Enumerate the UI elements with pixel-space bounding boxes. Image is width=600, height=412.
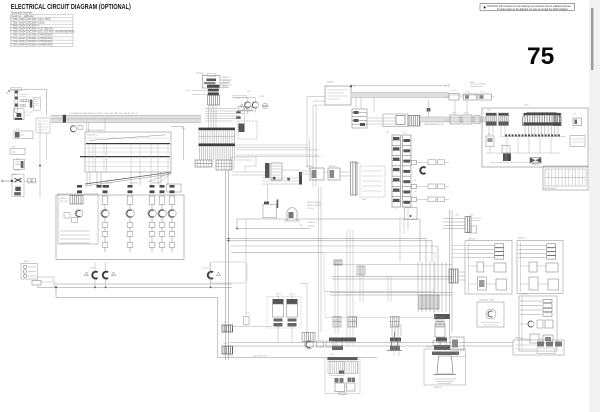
- bundle comp: [435, 324, 445, 337]
- svg-text:CN-C: CN-C: [487, 110, 492, 112]
- lamp junction dots: [94, 286, 212, 288]
- sub box SB3: [339, 392, 346, 395]
- long bus wire A: [54, 283, 232, 285]
- bus band K2: [420, 117, 487, 122]
- wires RX: [300, 171, 351, 176]
- relay C mark: [420, 167, 425, 174]
- box HH bottom right: [513, 340, 564, 355]
- svg-text:CN-7: CN-7: [455, 215, 459, 217]
- svg-text:75: 75: [527, 43, 554, 70]
- sub box SB1: [335, 383, 345, 392]
- connector bar dark: [328, 357, 358, 360]
- svg-text:D-4: D-4: [12, 147, 15, 149]
- bus junction tick: [63, 115, 66, 123]
- resistor RB: [32, 281, 41, 286]
- dark bar mid2: [332, 346, 343, 351]
- horizontal bus H292: [330, 293, 452, 296]
- svg-text:ZX170W–3 (HANDLING): ZX170W–3 (HANDLING): [27, 34, 53, 37]
- svg-text:C-3: C-3: [386, 132, 389, 134]
- comb connector top: [523, 113, 561, 126]
- relay sub-box dark cluster: [70, 196, 83, 205]
- wire bundle HB1 down: [200, 146, 235, 160]
- horizontal bus H276: [332, 277, 452, 280]
- fuse box FB1 internal verticals: [89, 144, 168, 172]
- long wire W247: [231, 245, 438, 247]
- svg-text:RELAY-5: RELAY-5: [306, 165, 314, 168]
- svg-text:D-6: D-6: [236, 118, 239, 120]
- svg-text:R-17: R-17: [236, 98, 240, 100]
- wire L1 to bus: [38, 277, 55, 287]
- work lamp WL1: [305, 340, 314, 349]
- svg-text:0084122: 0084122: [130, 183, 137, 185]
- dark bar 390b: [390, 346, 400, 351]
- WW comps: [528, 321, 534, 327]
- main power bus band (left): [51, 115, 201, 123]
- svg-text:RL-7: RL-7: [452, 113, 456, 115]
- fuse box FB1: [85, 132, 171, 172]
- UU2 mid comps: [529, 262, 537, 272]
- svg-text:ZX210W–3 (HANDLING): ZX210W–3 (HANDLING): [27, 44, 53, 47]
- svg-text:77565–30424: 77565–30424: [11, 35, 26, 37]
- switch column CN-A: [12, 174, 24, 196]
- dark bar mid: [329, 338, 356, 342]
- svg-text:To order parts on the drawing,: To order parts on the drawing, be sure t…: [497, 8, 568, 11]
- junction dot bus: [55, 286, 57, 288]
- CU1 left wires: [192, 90, 208, 94]
- dark comp in DB1: [239, 124, 245, 133]
- bus stubs to UU1: [452, 246, 465, 258]
- right vertical bus: [450, 210, 453, 338]
- UU2 bottom comps: [529, 277, 538, 290]
- UU1 wire rows: [466, 246, 494, 258]
- resistor row RR2: [411, 184, 416, 188]
- dashed box DB1: [238, 121, 257, 139]
- pin rail dashes: [505, 134, 560, 136]
- component CB1: [263, 204, 277, 218]
- connector small pairs: [335, 378, 356, 383]
- wires FU1: [232, 170, 300, 184]
- svg-text:RELAY: RELAY: [222, 85, 229, 88]
- wires solenoid to bus: [278, 327, 292, 343]
- fuse F1: [449, 94, 459, 101]
- WW inner bus: [521, 297, 523, 350]
- svg-text:0003: 0003: [362, 199, 366, 201]
- right cluster TT: [449, 269, 458, 283]
- second rail: [485, 152, 560, 154]
- svg-text:R1: R1: [414, 180, 416, 182]
- comb pins down: [525, 126, 558, 136]
- cluster 302: [302, 333, 315, 342]
- fuse F3: [478, 94, 492, 100]
- svg-text:KEY SW: KEY SW: [60, 201, 68, 203]
- fuse box FB1 diagonal: [89, 135, 166, 141]
- svg-text:FL-2: FL-2: [452, 90, 456, 92]
- diagonal feed wire 2: [85, 174, 171, 186]
- resistor row RR1: [411, 160, 416, 164]
- UU1 bottom comps: [477, 277, 486, 290]
- wire solenoid bottom: [232, 315, 272, 327]
- scrollbar track: [589, 0, 600, 412]
- relay coil RC1: [287, 208, 297, 222]
- svg-text:(OPT): (OPT): [228, 355, 234, 357]
- ecu small box: [396, 116, 405, 125]
- wire SW1 down: [39, 122, 41, 199]
- fuse-JJ stubs: [455, 100, 467, 115]
- dark bar 436: [436, 338, 447, 342]
- wire bundle CN-B down: [209, 105, 217, 128]
- arrow into SW1: [6, 91, 10, 94]
- lamp box L1: [21, 264, 38, 280]
- connector hatch rows: [328, 362, 358, 374]
- flasher unit FU1: [265, 163, 270, 178]
- svg-text:C-4: C-4: [403, 132, 406, 134]
- cab sub table box: [543, 166, 588, 190]
- long wire W228: [237, 228, 310, 230]
- capacitor symbol: [387, 332, 402, 351]
- svg-text:ZX140W–3 (EU): ZX140W–3 (EU): [27, 22, 44, 24]
- bundle dark bar 2: [434, 345, 450, 350]
- svg-text:B-7: B-7: [502, 145, 505, 147]
- controller CU1 label: [207, 74, 216, 77]
- svg-text:SOL-2: SOL-2: [290, 294, 295, 296]
- svg-text:R2: R2: [300, 225, 302, 227]
- relay box RB1 left sub-box: [58, 194, 98, 244]
- svg-text:CN-D: CN-D: [524, 105, 529, 107]
- svg-text:RY-1: RY-1: [16, 129, 20, 131]
- horn bar: [432, 352, 459, 356]
- diode DD1: [262, 103, 267, 108]
- diagonal feed wire main: [85, 172, 171, 184]
- wires into JB2: [307, 97, 325, 169]
- svg-text:ZX190W–3 (HANDLING): ZX190W–3 (HANDLING): [27, 37, 53, 40]
- relay box B1: [14, 131, 33, 139]
- svg-text:Serial No. – Up: Serial No. – Up: [11, 15, 27, 18]
- box OO: [570, 136, 585, 147]
- UU1 mid comps: [477, 262, 484, 272]
- horn connector: [433, 341, 439, 347]
- connector col pair 4: [436, 317, 444, 328]
- horn label: [434, 379, 456, 384]
- junction box JB2: [325, 86, 351, 105]
- connector block CNX: [352, 109, 367, 128]
- relay RL1: [245, 102, 251, 108]
- connector col pair 1: [333, 317, 341, 328]
- fuse box FB1 dark bar 2: [80, 156, 170, 158]
- option lamp DL1: [92, 272, 97, 279]
- connector pair small: [238, 107, 244, 110]
- bus dots: [273, 177, 290, 181]
- wires solenoid top: [278, 295, 292, 299]
- svg-text:0084126: 0084126: [222, 77, 229, 79]
- svg-text:77210–30424: 77210–30424: [11, 45, 26, 47]
- caution note box top right: [480, 4, 575, 11]
- pin rail line: [500, 135, 566, 137]
- svg-text:B+ HARNESS MAIN WIRE ROUTING: B+ HARNESS MAIN WIRE ROUTING / FUSE LINK…: [70, 112, 139, 115]
- relay box RX2: [328, 168, 340, 180]
- top small cluster: [334, 260, 342, 265]
- svg-text:0084131: 0084131: [518, 238, 525, 240]
- resistor row RR3: [411, 197, 416, 201]
- horn body: [437, 356, 453, 374]
- svg-text:CN-3: CN-3: [223, 343, 227, 345]
- small box right of FB1: [167, 184, 182, 192]
- dark connector bar DCB: [351, 162, 358, 195]
- connector bank CB-A: [392, 135, 401, 207]
- relay circuit K5: [168, 185, 176, 252]
- dark bars RL: [236, 111, 240, 119]
- resistor small RS: [244, 317, 250, 325]
- svg-text:ZX170W–3 (LC, EU, RUS, SNOWSWE: ZX170W–3 (LC, EU, RUS, SNOWSWEEPER): [27, 32, 74, 34]
- svg-text:F-8: F-8: [16, 159, 19, 161]
- svg-text:CN-2: CN-2: [223, 322, 227, 324]
- wires CNX to ecu: [367, 118, 397, 124]
- dark bar 390a: [390, 338, 401, 342]
- wires FB1 to relay box: [87, 172, 168, 185]
- svg-text:F-14: F-14: [466, 92, 470, 94]
- left verticals in box: [489, 126, 506, 162]
- junction dots W: [228, 228, 238, 242]
- svg-text:FUSE 5A: FUSE 5A: [222, 79, 231, 82]
- main vertical bus: [226, 170, 229, 360]
- WW bottom comps: [530, 334, 539, 343]
- wire down to RS: [245, 219, 247, 315]
- svg-text:0084119: 0084119: [327, 82, 334, 84]
- option lamp DL3: [208, 272, 213, 279]
- svg-text:77170–30424: 77170–30424: [11, 38, 26, 40]
- option box UU2: [517, 240, 563, 293]
- svg-text:D-9: D-9: [573, 114, 576, 116]
- CNX stubs to band: [356, 98, 374, 113]
- relay circuit K2: [126, 185, 134, 252]
- svg-text:SOL-1: SOL-1: [276, 294, 281, 296]
- junction dot RR: [410, 215, 412, 217]
- diagonal feed wire 3: [148, 173, 171, 184]
- wire with arrow: [171, 126, 186, 160]
- svg-text:77465–30424: 77465–30424: [11, 25, 26, 27]
- relay sub-box lamp: [75, 210, 83, 218]
- wires below EE: [396, 207, 408, 262]
- relay RL2: [252, 102, 258, 108]
- long wire W238: [226, 238, 426, 240]
- harness cells mid: [199, 130, 235, 143]
- sub box SB2: [347, 383, 356, 391]
- inner wire y264: [333, 264, 452, 266]
- dashed box solenoids: [267, 297, 301, 329]
- fuse box FB1 dark bar 1: [86, 143, 170, 145]
- connector grid CG2: [216, 160, 232, 170]
- svg-text:0084132: 0084132: [521, 294, 528, 296]
- svg-text:77265–30424: 77265–30424: [11, 22, 26, 24]
- bottom long bus2: [230, 345, 513, 347]
- connector row RR-A: [443, 219, 465, 229]
- small box XX: [450, 337, 464, 350]
- wire fan L-to-R: [205, 109, 255, 122]
- text rows mid: [300, 201, 322, 228]
- faint box mid-bottom: [325, 292, 435, 318]
- bundle hatch cluster: [419, 295, 439, 309]
- connector CN-B: [208, 95, 220, 105]
- svg-text:0084135: 0084135: [532, 164, 539, 166]
- svg-text:CN-8: CN-8: [469, 215, 473, 217]
- wire lamps to bus: [95, 262, 211, 287]
- wires RL to bus: [233, 98, 255, 124]
- svg-text:CAB HARNESS: CAB HARNESS: [543, 187, 557, 190]
- terminal dashed box TDB: [360, 166, 385, 197]
- horn outer box: [424, 349, 466, 385]
- svg-text:0084: 0084: [470, 82, 474, 84]
- connector bank CB-B: [403, 135, 412, 207]
- long wire W250: [231, 251, 324, 253]
- rounded box DL3: [210, 262, 247, 283]
- svg-text:0084124 RELAY: 0084124 RELAY: [307, 201, 322, 204]
- svg-text:R2: R2: [414, 191, 416, 193]
- WW wire rows: [520, 301, 542, 315]
- fusible link label box: [36, 118, 50, 133]
- svg-text:MACHINE (OPT): MACHINE (OPT): [253, 354, 268, 357]
- mid verticals extra: [360, 267, 391, 302]
- solenoid SV2: [287, 299, 298, 304]
- svg-text:0084127: 0084127: [222, 83, 229, 85]
- bus connector block BC2: [222, 346, 233, 354]
- wire bundle right: [418, 262, 446, 312]
- solenoid SV1: [273, 299, 284, 304]
- svg-text:RELAY-6: RELAY-6: [329, 165, 337, 168]
- fuse F2: [464, 94, 477, 100]
- svg-text:0084125 VALVE: 0084125 VALVE: [307, 204, 321, 207]
- svg-text:Model: Model: [27, 16, 34, 18]
- svg-text:CN-1: CN-1: [356, 163, 360, 165]
- connector bank dark cells: [393, 137, 410, 204]
- box EE: [405, 208, 418, 220]
- svg-text:HORN: HORN: [426, 347, 432, 349]
- relay circuit K4: [158, 185, 166, 252]
- svg-text:0084121: 0084121: [105, 183, 112, 185]
- svg-text:C-9: C-9: [572, 128, 575, 130]
- UU2 inner bus: [519, 242, 521, 292]
- svg-text:Applicable Machine: Applicable Machine: [11, 12, 33, 15]
- connector grid CG1: [195, 160, 212, 167]
- svg-text:B-6: B-6: [488, 134, 491, 136]
- long wire W240: [226, 240, 432, 242]
- wire corners Q2: [231, 157, 256, 172]
- svg-text:R-9: R-9: [246, 313, 249, 315]
- svg-text:0084130: 0084130: [468, 239, 475, 241]
- lamp box VV: [477, 302, 504, 327]
- vertical wires mid2: [335, 230, 353, 345]
- svg-text:77465–30424: 77465–30424: [11, 29, 26, 31]
- UU1 inner bus: [467, 242, 469, 293]
- cab sub table grid: [545, 169, 586, 186]
- warning triangle T3: [217, 272, 221, 276]
- dark tick on vertical: [427, 108, 431, 112]
- bus connector block BC1: [222, 325, 233, 332]
- long bus wire B: [37, 286, 232, 288]
- small box QQ: [502, 146, 510, 154]
- relay row wires: [445, 119, 484, 121]
- svg-text:0084123: 0084123: [152, 183, 159, 185]
- svg-text:ZX140W–3 (EU, 4WS): ZX140W–3 (EU, 4WS): [27, 19, 50, 21]
- outer faint box bottom: [325, 359, 360, 394]
- svg-text:ZX145W–3: ZX145W–3: [27, 25, 39, 27]
- UU2 wire rows: [518, 246, 546, 258]
- warning triangle T1: [85, 272, 89, 276]
- bundle side wires: [236, 145, 321, 157]
- relay col cells A: [77, 185, 109, 193]
- verticals 391 down: [394, 336, 399, 356]
- svg-text:0084133: 0084133: [434, 387, 441, 389]
- triangle RL: [240, 104, 244, 107]
- svg-text:CN-9: CN-9: [12, 174, 16, 176]
- svg-text:ZX190W–3 (HANDLING): ZX190W–3 (HANDLING): [27, 40, 53, 43]
- applicable machine table: [11, 15, 74, 47]
- dark connector bar mid: [299, 172, 302, 185]
- harness bar HB1 top: [199, 128, 236, 130]
- svg-text:77565–30424: 77565–30424: [11, 32, 26, 34]
- fuse wires: [445, 96, 495, 98]
- bundle dark bar 1: [434, 314, 450, 319]
- option box WW: [519, 296, 557, 351]
- long wire W219: [237, 219, 420, 229]
- svg-text:MAIN HARNESS (OPT): MAIN HARNESS (OPT): [424, 123, 444, 126]
- cab connector block B: [499, 113, 509, 126]
- small box NN: [573, 118, 582, 126]
- dark block bowtie: [530, 158, 541, 164]
- cab connector block A: [486, 113, 497, 126]
- wire below XX: [450, 350, 466, 357]
- scrollbar thumb: [591, 8, 593, 70]
- svg-text:ELECTRICAL CIRCUIT DIAGRAM (OP: ELECTRICAL CIRCUIT DIAGRAM (OPTIONAL): [11, 2, 131, 11]
- ecu outer box: [383, 114, 408, 127]
- comp row bottom: [317, 341, 324, 347]
- svg-text:0084134: 0084134: [515, 338, 522, 340]
- svg-text:R-23: R-23: [260, 96, 264, 98]
- svg-text:F-08: F-08: [15, 170, 19, 172]
- svg-text:77265–30424: 77265–30424: [11, 19, 26, 21]
- diode box B2: [10, 149, 25, 155]
- wire pair top: [313, 104, 325, 106]
- svg-text:ZX145W–3 (LIT NELON): ZX145W–3 (LIT NELON): [27, 29, 53, 31]
- rail bottom: [490, 161, 540, 163]
- connector col pair 2: [348, 317, 357, 328]
- fuse box FB1 rows: [86, 138, 170, 167]
- option lamp DL2: [103, 272, 108, 279]
- top bus right band: [351, 93, 449, 98]
- svg-text:E-1: E-1: [392, 337, 395, 339]
- junction dot JB2: [350, 85, 352, 87]
- bus lamp comp: [71, 126, 77, 132]
- vertical pair wires: [300, 105, 321, 340]
- arrow into CN-A: [1, 180, 11, 183]
- small box PP: [486, 136, 494, 147]
- svg-text:OPT-2: OPT-2: [203, 268, 208, 270]
- svg-text:FUSE BOX: FUSE BOX: [87, 134, 98, 136]
- svg-text:CN-204: CN-204: [307, 208, 314, 210]
- harness bar HB1 bottom: [199, 144, 236, 147]
- key switch panel SW1: [10, 89, 46, 115]
- relay circuit K3: [148, 185, 156, 252]
- svg-text:77190–30424: 77190–30424: [11, 41, 26, 43]
- warning triangle T2: [112, 272, 116, 276]
- svg-text:FUSE BOX 0084118: FUSE BOX 0084118: [86, 130, 103, 132]
- big faint box right-mid: [324, 252, 435, 291]
- wire CN-A right: [24, 180, 36, 182]
- vert bundle 391: [392, 324, 401, 336]
- svg-text:RL-8: RL-8: [464, 113, 468, 115]
- relay box RB1 outline: [56, 195, 184, 260]
- svg-text:F-15: F-15: [480, 92, 484, 94]
- dimension line: [351, 84, 449, 88]
- option box UU1: [465, 241, 512, 294]
